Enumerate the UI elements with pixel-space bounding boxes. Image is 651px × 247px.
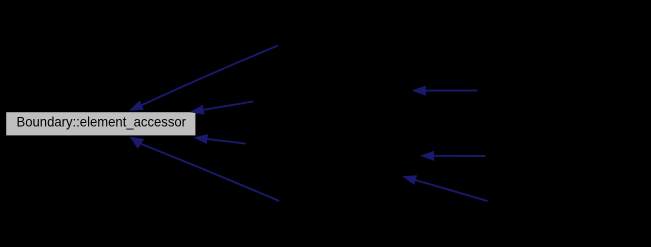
edge B (short diagonal into box top-right corner) xyxy=(190,102,253,115)
svg-text:Boundary::element_accessor: Boundary::element_accessor xyxy=(17,114,187,130)
edge D (short diagonal into box bottom-right corner) xyxy=(194,134,246,144)
edge F (diagonal from lower-right caller) xyxy=(402,175,487,201)
node box Boundary::element_accessor xyxy=(6,112,195,135)
edge C (horizontal arrow upper middle-right) xyxy=(412,86,477,96)
edge E (horizontal arrow lower middle-right) xyxy=(420,151,485,161)
edge A (long diagonal from upper-right caller) xyxy=(129,46,278,111)
edge G (long diagonal from bottom caller) xyxy=(130,137,280,201)
